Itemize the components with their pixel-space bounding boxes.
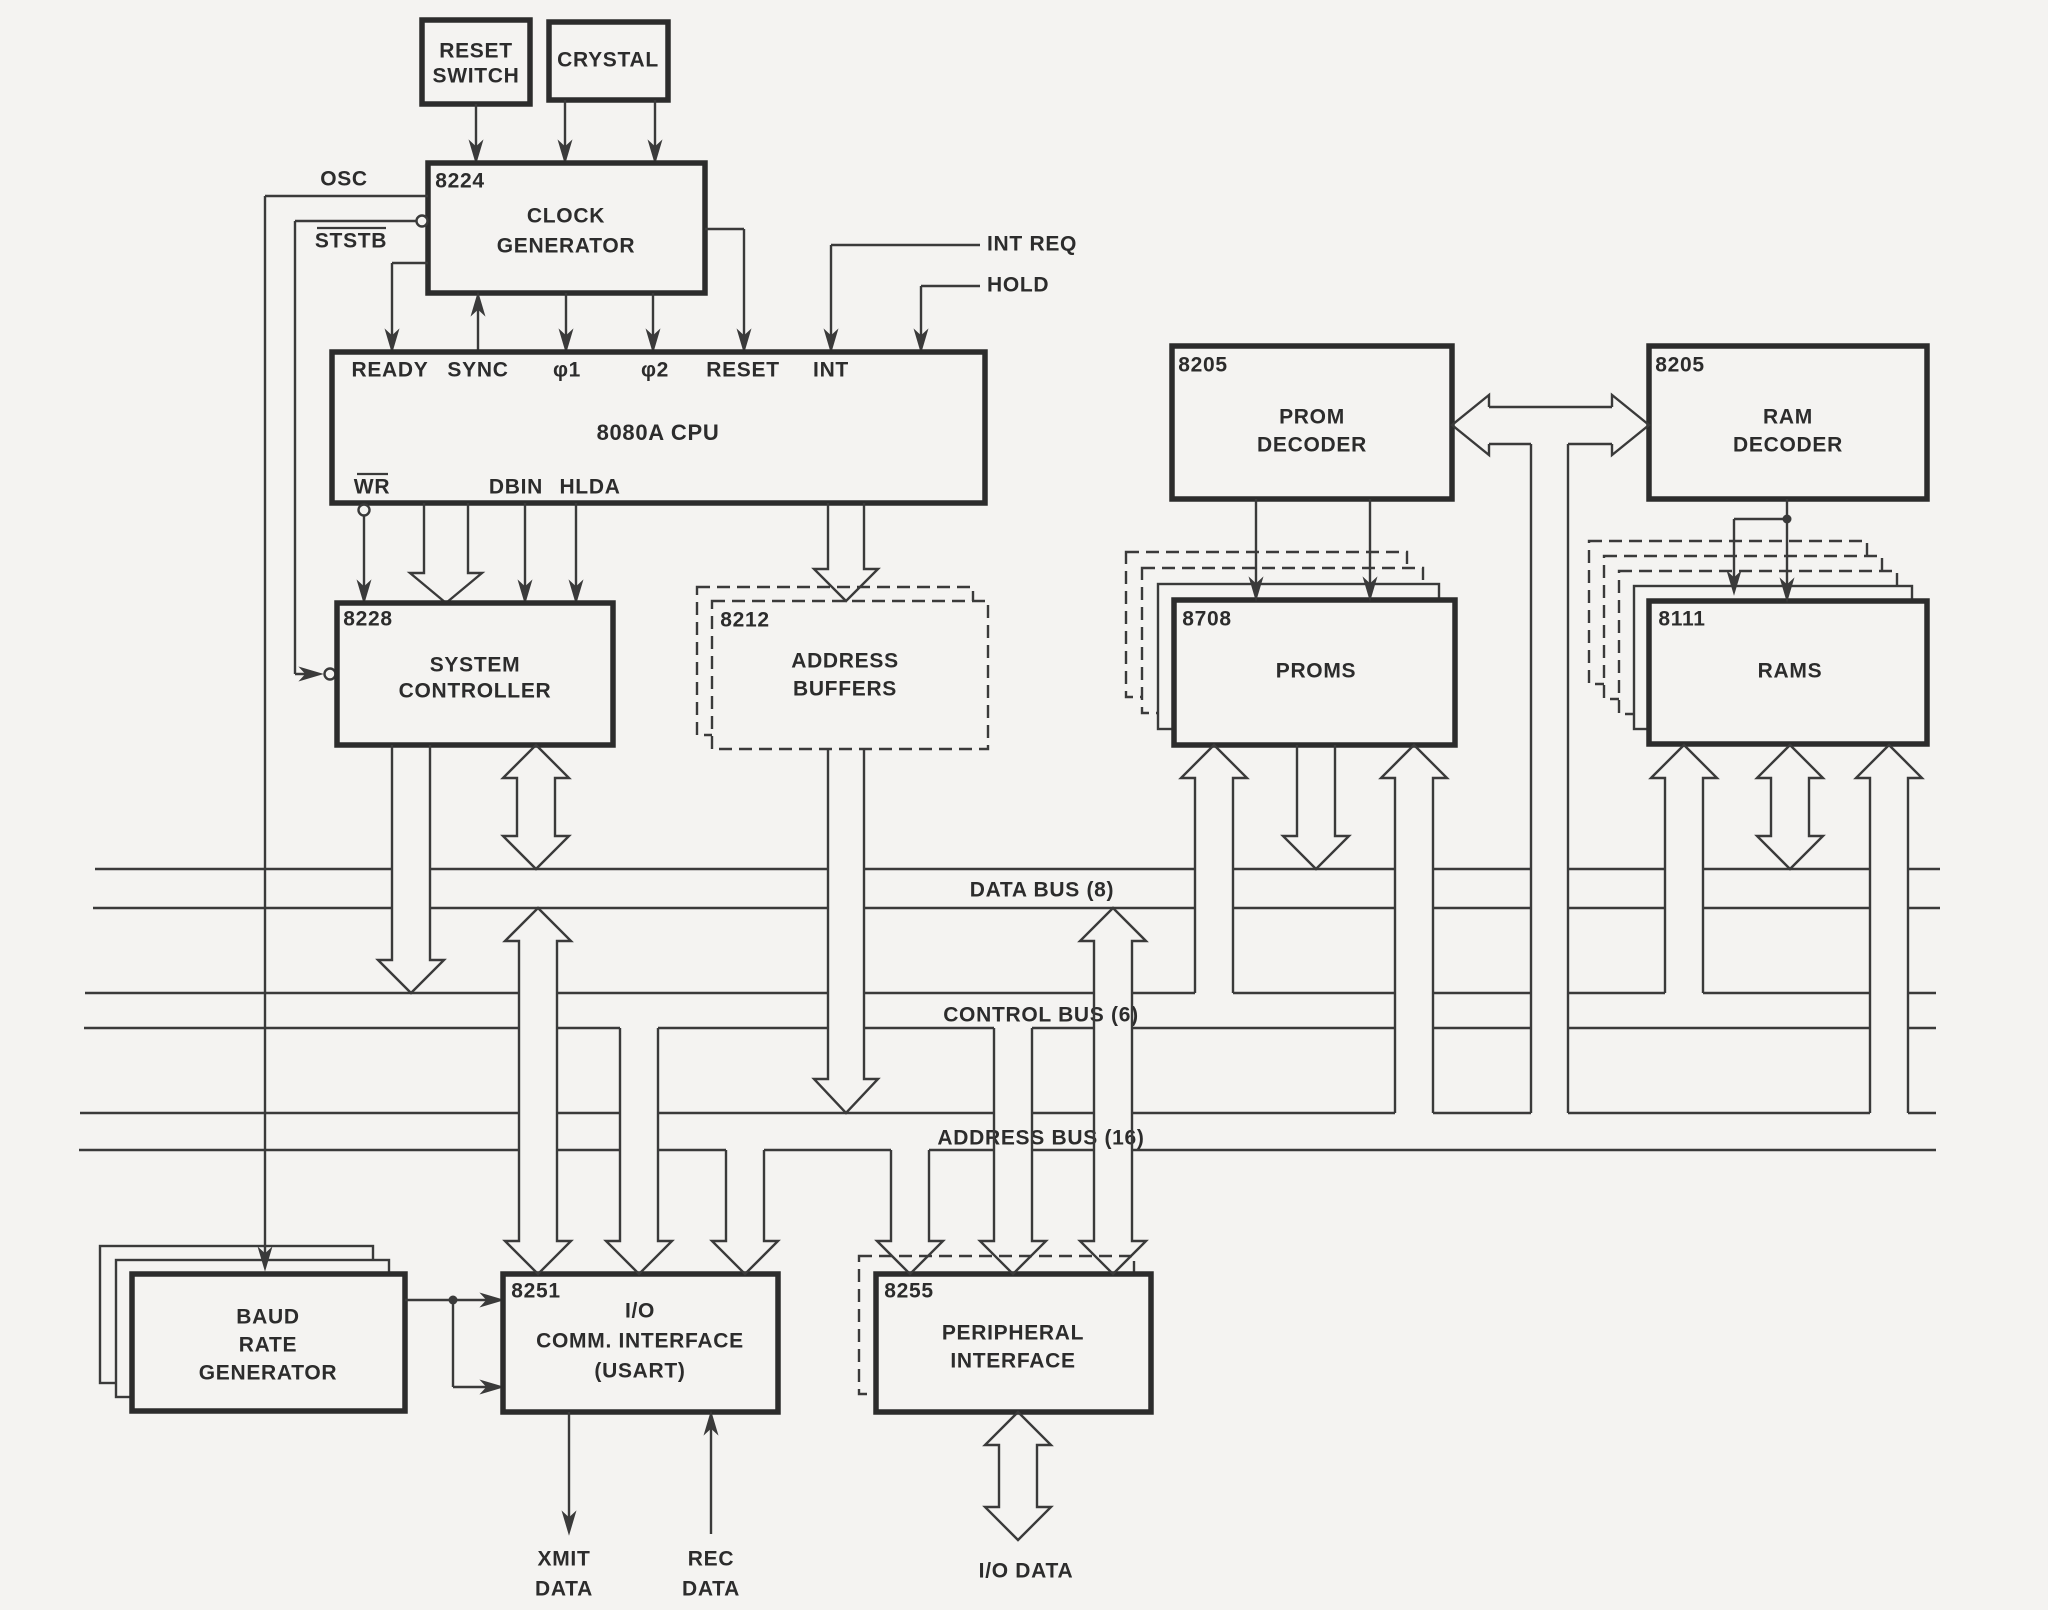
svg-text:φ2: φ2: [641, 359, 669, 382]
svg-text:READY: READY: [351, 359, 428, 382]
svg-text:8251: 8251: [511, 1280, 561, 1303]
baud rate generator (stacked): [100, 1246, 373, 1383]
svg-text:8212: 8212: [720, 609, 770, 632]
svg-text:RESET: RESET: [439, 40, 513, 63]
clock generator U-8224: [428, 163, 705, 293]
svg-text:HOLD: HOLD: [987, 274, 1049, 297]
svg-text:RAM: RAM: [1763, 406, 1813, 429]
wire prom decoder to proms (left): [1255, 499, 1257, 595]
svg-text:CLOCK: CLOCK: [527, 205, 605, 228]
system controller U-8228: [337, 603, 613, 745]
svg-text:INT: INT: [813, 359, 849, 382]
wire crystal to clock generator (left): [564, 100, 566, 160]
svg-text:REC: REC: [688, 1548, 734, 1571]
wire usart XMIT DATA output: [568, 1412, 570, 1529]
bus arrow control bus to rams: [1651, 745, 1717, 993]
svg-text:DATA: DATA: [682, 1578, 740, 1601]
svg-text:PROM: PROM: [1279, 406, 1345, 429]
svg-text:DECODER: DECODER: [1733, 434, 1843, 457]
svg-text:RESET: RESET: [706, 359, 780, 382]
wire OSC from clock generator down to baud rate generator: [265, 195, 428, 197]
bus arrow control bus to peripheral interface: [980, 1028, 1046, 1274]
bus arrow data bus to/from peripheral interface: [1080, 908, 1146, 1274]
address bus (16) band: [80, 1112, 1936, 1114]
bus arrow control bus to usart: [606, 1028, 672, 1274]
bus arrow address buffers to address bus: [814, 749, 878, 1113]
svg-text:BUFFERS: BUFFERS: [793, 678, 897, 701]
wire INT REQ to cpu INT: [831, 244, 980, 246]
control bus (6) band: [85, 992, 1936, 994]
svg-text:CONTROLLER: CONTROLLER: [399, 680, 552, 703]
svg-text:8205: 8205: [1178, 354, 1228, 377]
svg-text:DATA BUS (8): DATA BUS (8): [970, 879, 1115, 902]
svg-text:SYSTEM: SYSTEM: [430, 654, 521, 677]
wire HOLD to cpu: [921, 285, 980, 287]
wire reset switch to clock generator: [475, 104, 477, 160]
svg-text:DECODER: DECODER: [1257, 434, 1367, 457]
bus arrow address bus to proms: [1381, 745, 1447, 1113]
wire clock generator phi2 to cpu: [652, 293, 654, 348]
svg-text:STSTB: STSTB: [315, 230, 387, 253]
bus arrow between prom decoder and ram decoder (bidirectional) + feed from address bus: [1452, 395, 1649, 1113]
svg-text:PROMS: PROMS: [1276, 660, 1357, 683]
svg-text:PERIPHERAL: PERIPHERAL: [942, 1322, 1084, 1345]
prom decoder U-8205: [1172, 346, 1452, 499]
bus arrow data bus to/from usart: [505, 908, 571, 1274]
wire cpu WR to system controller (active low): [359, 505, 370, 516]
bus arrow cpu to system controller: [410, 503, 482, 603]
peripheral interface U-8255 (dashed second unit): [859, 1256, 1134, 1394]
svg-text:RAMS: RAMS: [1758, 660, 1823, 683]
wire cpu SYNC to clock generator: [477, 297, 479, 352]
io comm interface U-8251 (USART): [503, 1274, 778, 1412]
cpu U-8080A: [332, 352, 985, 503]
svg-text:8255: 8255: [884, 1280, 934, 1303]
svg-text:WR: WR: [354, 476, 390, 499]
bus arrow address bus to peripheral interface: [877, 1150, 943, 1274]
data bus (8) band: [95, 868, 1940, 870]
svg-text:8708: 8708: [1182, 608, 1232, 631]
svg-text:I/O DATA: I/O DATA: [979, 1560, 1074, 1583]
svg-text:XMIT: XMIT: [538, 1548, 591, 1571]
svg-text:ADDRESS BUS (16): ADDRESS BUS (16): [937, 1127, 1144, 1150]
svg-text:(USART): (USART): [594, 1360, 685, 1383]
svg-text:8224: 8224: [435, 170, 485, 193]
bus arrow control bus to proms: [1181, 745, 1247, 993]
bus arrow peripheral interface I/O DATA (bidirectional): [985, 1412, 1051, 1540]
wire crystal to clock generator (right): [654, 100, 656, 160]
svg-text:SWITCH: SWITCH: [432, 65, 519, 88]
wire prom decoder to proms (right): [1369, 499, 1371, 595]
wire REC DATA input to usart: [710, 1417, 712, 1534]
wire STSTB from clock generator to system controller: [417, 216, 428, 227]
svg-text:8080A CPU: 8080A CPU: [597, 420, 720, 445]
svg-text:GENERATOR: GENERATOR: [199, 1362, 338, 1385]
svg-text:INTERFACE: INTERFACE: [950, 1350, 1075, 1373]
bus arrow address bus to usart: [712, 1150, 778, 1274]
svg-text:CRYSTAL: CRYSTAL: [557, 49, 659, 72]
svg-text:GENERATOR: GENERATOR: [497, 235, 636, 258]
bus arrow system controller to control bus: [378, 745, 444, 993]
svg-text:8111: 8111: [1658, 608, 1705, 631]
reset switch box: [422, 20, 530, 104]
svg-text:8205: 8205: [1655, 354, 1705, 377]
svg-text:SYNC: SYNC: [447, 359, 508, 382]
crystal box: [549, 22, 668, 100]
bus arrow rams to/from data bus: [1757, 745, 1823, 869]
svg-text:BAUD: BAUD: [236, 1306, 299, 1329]
wire clock generator READY to cpu: [392, 262, 428, 264]
bus arrow system controller to/from data bus: [503, 745, 569, 869]
wire ram decoder to rams with junction: [1786, 499, 1788, 519]
bus arrow cpu to address buffers: [814, 503, 878, 601]
proms U-8708 (stacked): [1126, 552, 1407, 697]
svg-text:DBIN: DBIN: [489, 476, 543, 499]
svg-text:COMM. INTERFACE: COMM. INTERFACE: [536, 1330, 744, 1353]
wire clock generator phi1 to cpu: [565, 293, 567, 348]
wire OSC tail into baud rate generator stack: [264, 1246, 266, 1265]
wire clock generator RESET to cpu: [705, 228, 744, 230]
wire cpu HLDA to system controller: [575, 503, 577, 599]
svg-text:I/O: I/O: [625, 1300, 655, 1323]
address buffers U-8212 (stacked, dashed): [697, 587, 973, 735]
bus arrow address bus to rams: [1856, 745, 1922, 1113]
wire cpu DBIN to system controller: [524, 503, 526, 599]
svg-text:CONTROL BUS (6): CONTROL BUS (6): [943, 1004, 1139, 1027]
wire baud rate generator to usart (upper, with junction): [405, 1299, 497, 1301]
ram decoder U-8205: [1649, 346, 1927, 499]
svg-text:RATE: RATE: [239, 1334, 297, 1357]
wire baud rate generator to usart (lower): [452, 1300, 454, 1387]
svg-text:HLDA: HLDA: [559, 476, 620, 499]
bus arrow proms to data bus: [1283, 745, 1349, 869]
rams U-8111 (stacked): [1589, 541, 1867, 684]
svg-text:DATA: DATA: [535, 1578, 593, 1601]
svg-text:ADDRESS: ADDRESS: [791, 650, 899, 673]
svg-text:φ1: φ1: [553, 359, 581, 382]
svg-text:INT REQ: INT REQ: [987, 233, 1077, 256]
svg-text:OSC: OSC: [320, 168, 368, 191]
svg-text:8228: 8228: [343, 608, 393, 631]
